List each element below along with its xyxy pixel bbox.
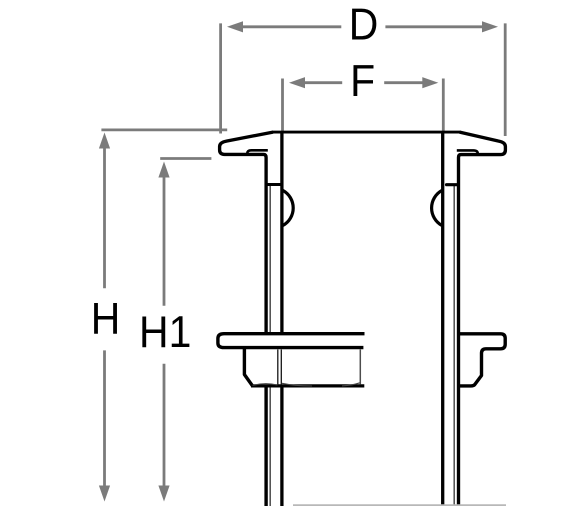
extension line F left	[281, 79, 284, 132]
thread root thin line left (upper)	[269, 186, 271, 334]
extension line D left	[219, 23, 222, 133]
tube inner wall left (upper part)	[280, 132, 283, 334]
flange right underside step (groove lip)	[457, 150, 478, 154]
inner bump right	[432, 190, 442, 225]
tube inner wall left (lower part)	[280, 386, 283, 506]
svg-text:D: D	[349, 0, 379, 50]
nut hex facet line 1	[277, 350, 279, 385]
dimension D line right segment	[385, 25, 484, 28]
nut chamfer arc centre facet	[282, 383, 312, 386]
svg-text:H: H	[91, 294, 121, 344]
extension line D right	[504, 23, 507, 136]
thread root thin line left (lower)	[269, 386, 271, 506]
arrowhead F right	[422, 77, 438, 88]
arrowhead F left	[289, 77, 305, 88]
dimension H1 vertical line upper	[163, 177, 166, 306]
tube outer wall left (lower part)	[264, 386, 267, 506]
dimension F line left segment	[303, 81, 342, 84]
dimension H vertical line lower	[103, 350, 106, 487]
nut left edge and chamfer (section view)	[244, 349, 252, 386]
extension line H (horizontal, top of flange)	[101, 128, 227, 131]
backing washer (left, section view)	[218, 334, 365, 348]
inner bump left	[283, 190, 293, 225]
dimension H vertical line upper	[103, 148, 106, 288]
dimension F line right segment	[384, 81, 422, 84]
arrowhead H bottom	[99, 486, 110, 502]
flange left wing outline and outer wall top	[220, 132, 273, 334]
tube bottom faint edge	[293, 504, 506, 506]
arrowhead H top	[99, 133, 110, 149]
nut chamfer arc left facet	[253, 384, 278, 386]
arrowhead D left	[227, 21, 243, 32]
nut bottom edge (left half)	[251, 384, 364, 387]
nut chamfer arc right facet	[342, 383, 360, 386]
nut hex facet line 2	[280, 350, 282, 385]
thread root thin line right	[453, 186, 455, 506]
flange left underside step (groove lip)	[247, 150, 268, 154]
arrowhead H1 top	[158, 162, 169, 178]
arrowhead D right	[482, 21, 498, 32]
svg-text:H1: H1	[139, 307, 191, 357]
tube inner wall right (full)	[441, 132, 444, 506]
thread start joint line right	[447, 183, 458, 186]
dimension D line left segment	[101, 23, 505, 487]
thread start joint line left	[265, 183, 282, 186]
flange right wing outline and outer wall	[459, 132, 506, 506]
extension line F right	[442, 79, 445, 132]
flange top edge	[272, 131, 461, 134]
svg-text:F: F	[350, 56, 375, 106]
nut section cut edge at centerline	[359, 350, 361, 385]
dimension H1 vertical line lower	[163, 364, 166, 488]
washer and nut right outline (exterior view)	[459, 334, 506, 386]
extension line H1 (horizontal, under flange)	[160, 157, 211, 160]
arrowhead H1 bottom	[158, 486, 169, 502]
